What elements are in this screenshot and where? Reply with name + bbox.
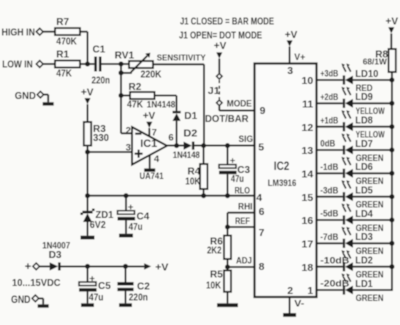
svg-text:1N4148: 1N4148 (173, 150, 200, 160)
wire LD4 anode to rail (353, 218, 395, 223)
wire IC2 pin 15 to LD5 (302, 185, 343, 204)
svg-text:16: 16 (302, 215, 314, 227)
svg-text:5: 5 (258, 142, 264, 154)
svg-text:+V: +V (386, 17, 399, 28)
LED LD2 green (342, 250, 384, 280)
label REF (235, 216, 250, 227)
wire D2 to SIG pin 5 (194, 143, 254, 148)
IC IC2 LM3916 (255, 64, 317, 298)
svg-text:C5: C5 (98, 281, 111, 292)
svg-text:+V: +V (285, 30, 298, 41)
svg-text:2: 2 (287, 285, 293, 297)
wire LD8 anode to rail (353, 124, 395, 129)
svg-text:J1 OPEN= DOT MODE: J1 OPEN= DOT MODE (179, 30, 262, 41)
wire RV1 wiper rail down to inverting input (121, 64, 132, 133)
svg-text:220K: 220K (141, 69, 163, 80)
resistor R1 (55, 50, 80, 80)
svg-text:-5dB: -5dB (320, 209, 338, 219)
wire R6 to R5 with ADJ tap (225, 259, 255, 270)
svg-text:7: 7 (152, 127, 157, 138)
svg-text:LD6: LD6 (355, 162, 373, 173)
svg-text:J1: J1 (208, 86, 220, 97)
wire LD3 anode to rail (353, 241, 395, 246)
svg-text:-7dB: -7dB (320, 232, 338, 242)
wire R7 to C1 junction (80, 32, 88, 64)
svg-text:REF: REF (235, 216, 250, 227)
zener diode ZD1 6V2 (80, 196, 113, 236)
wire IC2 V- to ground (290, 297, 305, 313)
supply +V for J1 (214, 41, 227, 73)
supply +V for R8 (386, 17, 399, 49)
ground terminal GND upper (15, 90, 54, 106)
svg-text:+2dB: +2dB (320, 92, 338, 102)
wire IC2 pin 18 to LD2 (302, 255, 350, 274)
svg-text:+V: +V (155, 262, 168, 274)
svg-text:MODE: MODE (227, 99, 253, 110)
svg-text:18: 18 (302, 262, 314, 274)
resistor R5 (206, 270, 231, 292)
wire reference rail RLO (85, 193, 255, 198)
supply +V for op-amp (143, 111, 156, 137)
note J1 closed bar mode (180, 16, 274, 27)
op-amp IC1 UA741 (126, 126, 174, 181)
svg-text:+: + (25, 261, 31, 273)
svg-text:SENSITIVITY: SENSITIVITY (157, 53, 206, 63)
svg-text:3: 3 (287, 65, 293, 77)
svg-text:1N4007: 1N4007 (42, 240, 70, 250)
node +V distribution arrow (144, 262, 168, 274)
svg-text:10: 10 (302, 75, 314, 87)
svg-text:10K: 10K (185, 177, 201, 188)
wire LD1 anode to rail (353, 289, 393, 291)
svg-text:J1 CLOSED = BAR MODE: J1 CLOSED = BAR MODE (180, 16, 274, 27)
ground below IC2 (283, 313, 296, 317)
wire IC2 pin 17 to LD3 (302, 232, 343, 251)
svg-text:220n: 220n (129, 292, 148, 303)
wire IC2 pin 13 to LD7 (302, 139, 343, 158)
svg-text:R5: R5 (210, 270, 223, 281)
label RLO (235, 186, 251, 197)
svg-text:+V: +V (143, 111, 156, 122)
svg-text:HIGH IN: HIGH IN (2, 26, 36, 38)
capacitor C1 (92, 45, 111, 87)
svg-text:6: 6 (168, 133, 173, 144)
diode D3 1N4007 (42, 240, 70, 270)
capacitor C3 47u (219, 146, 251, 196)
svg-text:2: 2 (126, 126, 131, 137)
svg-text:+3dB: +3dB (320, 69, 338, 79)
svg-text:47u: 47u (89, 292, 104, 303)
wire LD9 anode to rail (353, 101, 395, 106)
wire op-amp pin 4 to ground (149, 155, 151, 168)
resistor R3 (84, 122, 110, 146)
resistor R2 (119, 82, 176, 110)
jumper J1 (208, 74, 222, 106)
supply +V for IC2 (285, 30, 306, 64)
svg-text:11: 11 (302, 99, 313, 111)
svg-text:10K: 10K (206, 281, 222, 292)
svg-text:LD7: LD7 (355, 139, 373, 150)
LED LD4 green (342, 203, 384, 233)
svg-text:LM3916: LM3916 (268, 178, 297, 189)
svg-text:8: 8 (259, 261, 265, 273)
wire RV1 right to SIG node (153, 64, 204, 145)
svg-text:LD1: LD1 (355, 279, 373, 290)
svg-text:C1: C1 (93, 45, 106, 56)
ground below C4 (119, 234, 133, 238)
svg-text:D3: D3 (49, 250, 62, 261)
pin 8 label (259, 261, 265, 273)
svg-text:V-: V- (294, 299, 304, 310)
svg-text:D2: D2 (183, 128, 197, 139)
pin 5 label (258, 142, 264, 154)
svg-text:15: 15 (302, 192, 314, 204)
wire REF pin 7 (225, 225, 255, 230)
wire LD7 anode to rail (353, 148, 395, 153)
LED LD7 green (342, 133, 384, 163)
svg-text:14: 14 (302, 169, 314, 181)
svg-text:6V2: 6V2 (90, 220, 106, 231)
svg-text:12: 12 (302, 122, 314, 134)
resistor R4 (185, 146, 207, 196)
svg-text:LD10: LD10 (355, 69, 378, 80)
wire R1 to C1 (80, 62, 94, 67)
svg-text:LD9: LD9 (355, 92, 373, 103)
svg-text:V+: V+ (294, 52, 305, 63)
svg-text:220n: 220n (92, 76, 111, 87)
ground below R5 (217, 303, 238, 307)
svg-text:RLO: RLO (235, 186, 251, 197)
ground below op-amp (144, 168, 155, 171)
node HIGH IN input terminal (2, 26, 56, 38)
svg-text:-3dB: -3dB (320, 185, 338, 195)
svg-text:470K: 470K (56, 37, 77, 48)
svg-text:RV1: RV1 (115, 51, 135, 62)
svg-text:+: + (128, 202, 134, 213)
svg-text:47u: 47u (129, 222, 143, 233)
svg-text:4: 4 (154, 154, 160, 165)
wire LED anode rail (391, 72, 393, 290)
svg-text:LD2: LD2 (355, 256, 373, 267)
svg-text:LD3: LD3 (355, 232, 373, 243)
svg-text:+: + (89, 273, 95, 284)
label MODE (227, 99, 253, 110)
wire LD10 anode to rail (353, 78, 395, 83)
svg-text:R1: R1 (56, 50, 69, 61)
LED LD9 yellow (342, 87, 385, 117)
node LOW IN input terminal (2, 59, 55, 71)
svg-text:2K2: 2K2 (207, 245, 222, 256)
svg-text:SIG: SIG (239, 134, 254, 145)
node + supply input terminal (12, 261, 61, 289)
svg-text:4: 4 (256, 192, 262, 204)
svg-text:GREEN: GREEN (356, 293, 384, 303)
pin 2 label (287, 285, 293, 297)
wire R2 to D1 (155, 96, 177, 111)
wire R3 to non-inverting input and zener rail (85, 146, 132, 196)
svg-text:LD4: LD4 (355, 209, 373, 220)
wire op-amp output (167, 143, 184, 148)
label DOT/BAR (205, 113, 249, 125)
svg-text:LD5: LD5 (355, 186, 373, 197)
pin 6 label (259, 206, 265, 218)
svg-text:DOT/BAR: DOT/BAR (205, 113, 249, 125)
svg-text:+V: +V (214, 41, 227, 52)
wire RHI pin 6 (228, 213, 255, 236)
svg-text:68/1W: 68/1W (363, 57, 388, 67)
wire IC2 pin 1 to LD1 (307, 279, 350, 298)
svg-text:47K: 47K (127, 99, 144, 110)
svg-text:GND: GND (15, 90, 36, 102)
capacitor C5 47u (79, 266, 111, 303)
capacitor C2 220n (117, 266, 150, 303)
svg-text:ADJ: ADJ (236, 255, 252, 266)
LED LD1 green (342, 273, 384, 303)
svg-text:13: 13 (302, 145, 314, 157)
capacitor C4 47u (118, 196, 150, 234)
svg-text:R2: R2 (129, 82, 142, 93)
LED LD6 green (342, 157, 384, 187)
svg-text:6: 6 (259, 206, 265, 218)
LED LD10 red (342, 63, 379, 93)
note J1 open dot mode (179, 30, 262, 41)
svg-text:47u: 47u (231, 174, 244, 185)
pin 7 label (259, 227, 265, 239)
diode D1 1N4148 (173, 111, 198, 122)
svg-text:9: 9 (260, 105, 266, 117)
ground below C5 (81, 303, 94, 307)
svg-text:+V: +V (81, 88, 94, 99)
svg-text:+: + (230, 155, 236, 166)
wire IC2 pin 11 to LD9 (302, 92, 343, 111)
wire R5 to ground (227, 292, 229, 304)
wire C1 to RV1 (102, 62, 130, 67)
pin 3 label (287, 65, 293, 77)
svg-text:10...15VDC: 10...15VDC (12, 277, 61, 289)
label ADJ (236, 255, 252, 266)
svg-text:D1: D1 (184, 111, 197, 122)
pin 9 label (260, 105, 266, 117)
svg-text:UA741: UA741 (140, 171, 164, 181)
wire D3 to +V distribution (61, 264, 145, 269)
wire J1 to MODE pin 9 (219, 106, 254, 111)
svg-text:-1dB: -1dB (320, 162, 338, 172)
wire LD5 anode to rail (353, 194, 395, 199)
wire D1 to output junction (176, 121, 178, 146)
svg-text:+1dB: +1dB (320, 115, 338, 125)
wire IC2 pin 12 to LD8 (302, 115, 343, 134)
wire IC2 pin 16 to LD4 (302, 209, 343, 228)
potentiometer RV1 sensitivity (115, 51, 206, 81)
wire LD6 anode to rail (353, 171, 395, 176)
LED LD3 green (342, 227, 384, 257)
ground terminal GND lower (11, 294, 49, 308)
wire LD2 anode to rail (353, 264, 395, 269)
svg-text:7: 7 (259, 227, 265, 239)
label SIG (239, 134, 254, 145)
LED LD5 green (342, 180, 384, 210)
svg-text:C2: C2 (137, 281, 150, 292)
resistor R6 (207, 236, 231, 259)
svg-text:R7: R7 (56, 17, 69, 28)
svg-text:RHI: RHI (238, 201, 253, 212)
resistor R7 (55, 17, 80, 47)
ground below C2 (119, 303, 132, 307)
svg-text:17: 17 (302, 239, 314, 251)
svg-text:IC1: IC1 (140, 138, 157, 150)
wire IC2 pin 14 to LD6 (302, 162, 343, 181)
svg-text:47K: 47K (56, 68, 72, 79)
svg-text:1N4148: 1N4148 (147, 99, 176, 109)
label RHI (238, 201, 253, 212)
LED LD8 yellow (342, 110, 385, 140)
supply +V for R3 (81, 88, 94, 122)
svg-text:GND: GND (11, 294, 31, 306)
svg-text:LOW IN: LOW IN (2, 59, 33, 71)
svg-text:LD8: LD8 (355, 116, 373, 127)
wire IC2 pin 10 to LD10 (302, 69, 343, 88)
resistor R8 68/1W (363, 49, 396, 72)
svg-text:1: 1 (307, 285, 313, 297)
diode D2 1N4148 (173, 128, 200, 160)
svg-text:0dB: 0dB (320, 139, 335, 149)
svg-text:IC2: IC2 (274, 161, 290, 173)
svg-text:330: 330 (93, 133, 109, 144)
ground below ZD1 (81, 236, 95, 240)
pin 4 label (256, 192, 262, 204)
